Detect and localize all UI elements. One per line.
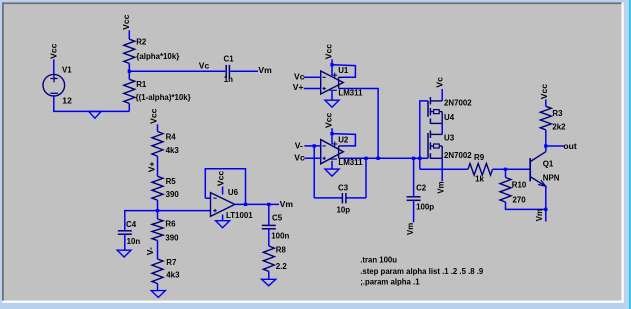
svg-text:10n: 10n: [127, 237, 141, 246]
svg-text:Vcc: Vcc: [48, 43, 58, 59]
svg-text:Vcc: Vcc: [324, 112, 334, 128]
svg-text:.step param alpha list .1 .2 .: .step param alpha list .1 .2 .5 .8 .9: [360, 267, 484, 276]
ground under R7: [151, 291, 165, 298]
svg-text:{(1-alpha)*10k}: {(1-alpha)*10k}: [136, 93, 191, 102]
svg-text:{alpha*10k}: {alpha*10k}: [136, 52, 179, 61]
svg-text:U3: U3: [444, 134, 455, 143]
svg-text:100n: 100n: [271, 231, 289, 240]
node emitter dot: [544, 208, 547, 211]
svg-text:Q1: Q1: [543, 159, 554, 168]
wire main row U2 output to gate bus: [343, 157, 420, 159]
wire C1 to Vm: [230, 70, 258, 72]
svg-text:Vm: Vm: [258, 65, 272, 75]
svg-text:Vm: Vm: [406, 223, 415, 235]
wire R10 bottom to emitter: [506, 202, 546, 209]
gate bus wire: [420, 101, 428, 169]
svg-text:LT1001: LT1001: [226, 211, 253, 220]
wire C2 to Vm: [413, 200, 415, 222]
svg-text:R2: R2: [136, 37, 147, 46]
svg-text:4k3: 4k3: [166, 271, 180, 280]
svg-text:10p: 10p: [337, 206, 351, 215]
node Vc junction dot: [128, 70, 131, 73]
node U1 on row dot: [376, 157, 379, 160]
wire U4 source to U3 drain: [441, 123, 443, 134]
wire Vcc to R3: [545, 99, 547, 106]
supply junction dot U2: [330, 132, 333, 135]
svg-text:R9: R9: [474, 153, 485, 162]
svg-text:Vc: Vc: [294, 152, 305, 162]
wire U3 source to Vm: [441, 158, 443, 181]
comparator U2: [321, 140, 344, 164]
svg-text:V+: V+: [293, 82, 304, 92]
wire U6 V- supply to ground: [222, 215, 224, 221]
svg-text:2.2: 2.2: [276, 262, 288, 271]
svg-text:1n: 1n: [224, 75, 233, 84]
wire R4 to R5: [157, 156, 159, 176]
svg-text:LM311: LM311: [338, 89, 363, 98]
svg-text:100p: 100p: [416, 202, 434, 211]
output bar U1: [338, 77, 340, 88]
wire V+ to U1: [304, 88, 321, 90]
svg-text:1k: 1k: [475, 174, 484, 183]
ground under U1: [325, 100, 339, 107]
V- pin minus mark U1: [330, 89, 337, 91]
svg-text:V-: V-: [145, 247, 155, 255]
wire R7 to ground: [157, 284, 159, 291]
capacitor C3: [341, 193, 343, 203]
node R10 dot: [504, 168, 507, 171]
svg-text:Vc: Vc: [294, 71, 305, 81]
ground under U2: [325, 169, 339, 176]
svg-text:Vm: Vm: [535, 209, 544, 221]
svg-text:R10: R10: [512, 180, 527, 189]
wire R9 to base node: [493, 168, 530, 170]
svg-text:R8: R8: [276, 246, 287, 255]
V- pin minus mark U2: [330, 158, 337, 160]
V+ pin plus mark U1: [332, 74, 337, 76]
op-amp U6: [211, 193, 235, 217]
wire Vcc supply into U1: [331, 59, 333, 75]
resistor R9: [468, 164, 493, 176]
wire R8 to ground: [268, 271, 270, 279]
ground under C4: [117, 250, 131, 257]
wire Vcc to V1 top: [53, 59, 55, 74]
svg-text:2k2: 2k2: [552, 123, 566, 132]
svg-text:U4: U4: [444, 113, 455, 122]
svg-text:V1: V1: [62, 66, 72, 75]
wire C3 loop bottom right: [347, 197, 367, 199]
node C5 dot: [267, 203, 270, 206]
svg-text:U2: U2: [338, 136, 349, 145]
wire C3 loop left side: [313, 146, 315, 198]
svg-text:Vcc: Vcc: [121, 14, 131, 30]
wire Vc to U2: [304, 157, 320, 159]
svg-text:LM311: LM311: [338, 158, 363, 167]
cyan window edge right: [629, 0, 631, 309]
svg-text:;.param alpha .1: ;.param alpha .1: [360, 277, 420, 286]
wire U1 output down to bus: [343, 89, 378, 159]
svg-text:Vm: Vm: [436, 181, 445, 193]
supply junction dot U1: [330, 63, 333, 66]
svg-text:.tran 100u: .tran 100u: [360, 255, 397, 264]
mosfet U4: [427, 101, 429, 117]
wire C3 loop bottom left: [314, 197, 342, 199]
resistor R7: [152, 259, 163, 284]
wire node to C1: [129, 70, 225, 72]
resistor R8: [263, 246, 274, 271]
svg-text:C5: C5: [272, 213, 283, 222]
svg-text:12: 12: [62, 95, 72, 105]
frame dark line top: [2, 2, 624, 4]
wire V- to U2: [304, 145, 320, 147]
resistor R2: [124, 39, 135, 63]
comparator U1: [321, 71, 344, 94]
wire R6 to R7: [157, 241, 159, 260]
svg-text:Vcc: Vcc: [215, 171, 225, 187]
svg-text:out: out: [563, 141, 576, 151]
wire junction to C4 and U6: [125, 211, 211, 231]
svg-text:C1: C1: [224, 55, 235, 64]
svg-text:270: 270: [513, 195, 527, 204]
ground under R8: [262, 279, 276, 286]
svg-text:R3: R3: [552, 109, 563, 118]
collector loop wire U2: [332, 134, 355, 146]
wire R5 to junction: [157, 200, 159, 211]
svg-text:U6: U6: [228, 188, 239, 197]
frame dark line left: [2, 2, 4, 301]
feedback wire U6 output to inverting input: [205, 169, 245, 205]
svg-text:R4: R4: [166, 132, 177, 141]
capacitor C2: [407, 196, 421, 198]
transistor Q1: [529, 158, 531, 181]
wire U1 V- to ground: [331, 91, 333, 100]
wire row to C2: [413, 158, 415, 197]
svg-text:390: 390: [166, 190, 180, 199]
wire junction to R6: [157, 211, 159, 219]
output bar U2: [338, 146, 340, 158]
wire Vcc to R2: [128, 30, 130, 39]
wire R3 to collector node: [545, 130, 547, 146]
collector loop wire U1: [332, 65, 355, 78]
svg-text:U1: U1: [338, 66, 349, 75]
resistor R3: [540, 106, 551, 130]
wire Vc to U4 drain: [441, 89, 443, 101]
svg-text:R6: R6: [165, 220, 176, 229]
wire node to C5: [268, 204, 270, 225]
wire inverting input stub: [205, 197, 210, 199]
svg-text:NPN: NPN: [543, 174, 560, 183]
wire Vc to U1: [304, 76, 321, 78]
svg-text:Vcc: Vcc: [149, 108, 159, 124]
wire V1 bottom to R1 bottom: [54, 96, 130, 111]
frame white line right: [622, 2, 624, 303]
resistor R6: [152, 219, 163, 241]
node C3 tap on V- wire dot: [313, 144, 316, 147]
svg-text:Vcc: Vcc: [539, 84, 549, 100]
resistor R4: [152, 132, 163, 157]
capacitor C4: [118, 230, 132, 232]
svg-text:V-: V-: [295, 140, 303, 150]
svg-text:R5: R5: [166, 177, 177, 186]
wire U3 gate stub: [420, 157, 428, 159]
wire C5 to R8: [268, 229, 270, 246]
svg-text:Vc: Vc: [434, 77, 444, 88]
node gate bus dot: [418, 157, 421, 160]
svg-text:Vcc: Vcc: [324, 44, 334, 60]
svg-text:Vm: Vm: [280, 199, 294, 209]
capacitor C1: [225, 65, 227, 78]
node U6 feedback dot: [244, 203, 247, 206]
wire U6 output to Vm: [235, 203, 279, 205]
wire node to R10: [505, 169, 507, 177]
svg-text:V+: V+: [147, 162, 157, 173]
wire R2 to node: [128, 63, 130, 71]
wire collector node to out: [546, 145, 564, 147]
frame white line bottom: [2, 301, 624, 303]
node collector dot: [544, 144, 547, 147]
ground at V1: [89, 112, 101, 119]
resistor R1: [124, 79, 135, 103]
svg-text:C4: C4: [126, 220, 137, 229]
svg-text:C2: C2: [416, 183, 427, 192]
svg-text:R7: R7: [166, 258, 177, 267]
svg-text:C3: C3: [338, 184, 349, 193]
wire C4 to ground: [124, 234, 126, 250]
wire U6 V+ supply: [222, 187, 224, 195]
svg-text:R1: R1: [136, 80, 147, 89]
wire U2 V- to ground: [331, 161, 333, 169]
svg-text:2N7002: 2N7002: [444, 98, 472, 107]
wire Vcc to R4: [157, 124, 159, 131]
node C2 on row dot: [412, 157, 415, 160]
V+ pin plus mark U2: [332, 143, 337, 145]
wire Vcc supply into U2: [331, 128, 333, 144]
ground under U6: [216, 221, 230, 228]
wire Q1 collector: [545, 146, 547, 152]
resistor R10: [500, 178, 511, 203]
svg-text:4k3: 4k3: [166, 146, 180, 155]
wire Q1 emitter down: [545, 186, 547, 221]
svg-text:2N7002: 2N7002: [444, 151, 472, 160]
wire node to R1: [128, 71, 130, 79]
mosfet U3: [427, 133, 429, 158]
wire bus down to R9: [420, 168, 468, 170]
wire R1 to bottom rail: [128, 103, 130, 111]
wire C3 loop right side: [365, 158, 367, 198]
resistor R5: [152, 176, 163, 200]
svg-text:390: 390: [165, 234, 179, 243]
node C3 on row dot: [364, 157, 367, 160]
capacitor C5: [262, 224, 276, 226]
svg-text:Vc: Vc: [199, 60, 210, 70]
voltage source V1: [43, 74, 65, 96]
node junction R5-R6 dot: [156, 209, 159, 212]
